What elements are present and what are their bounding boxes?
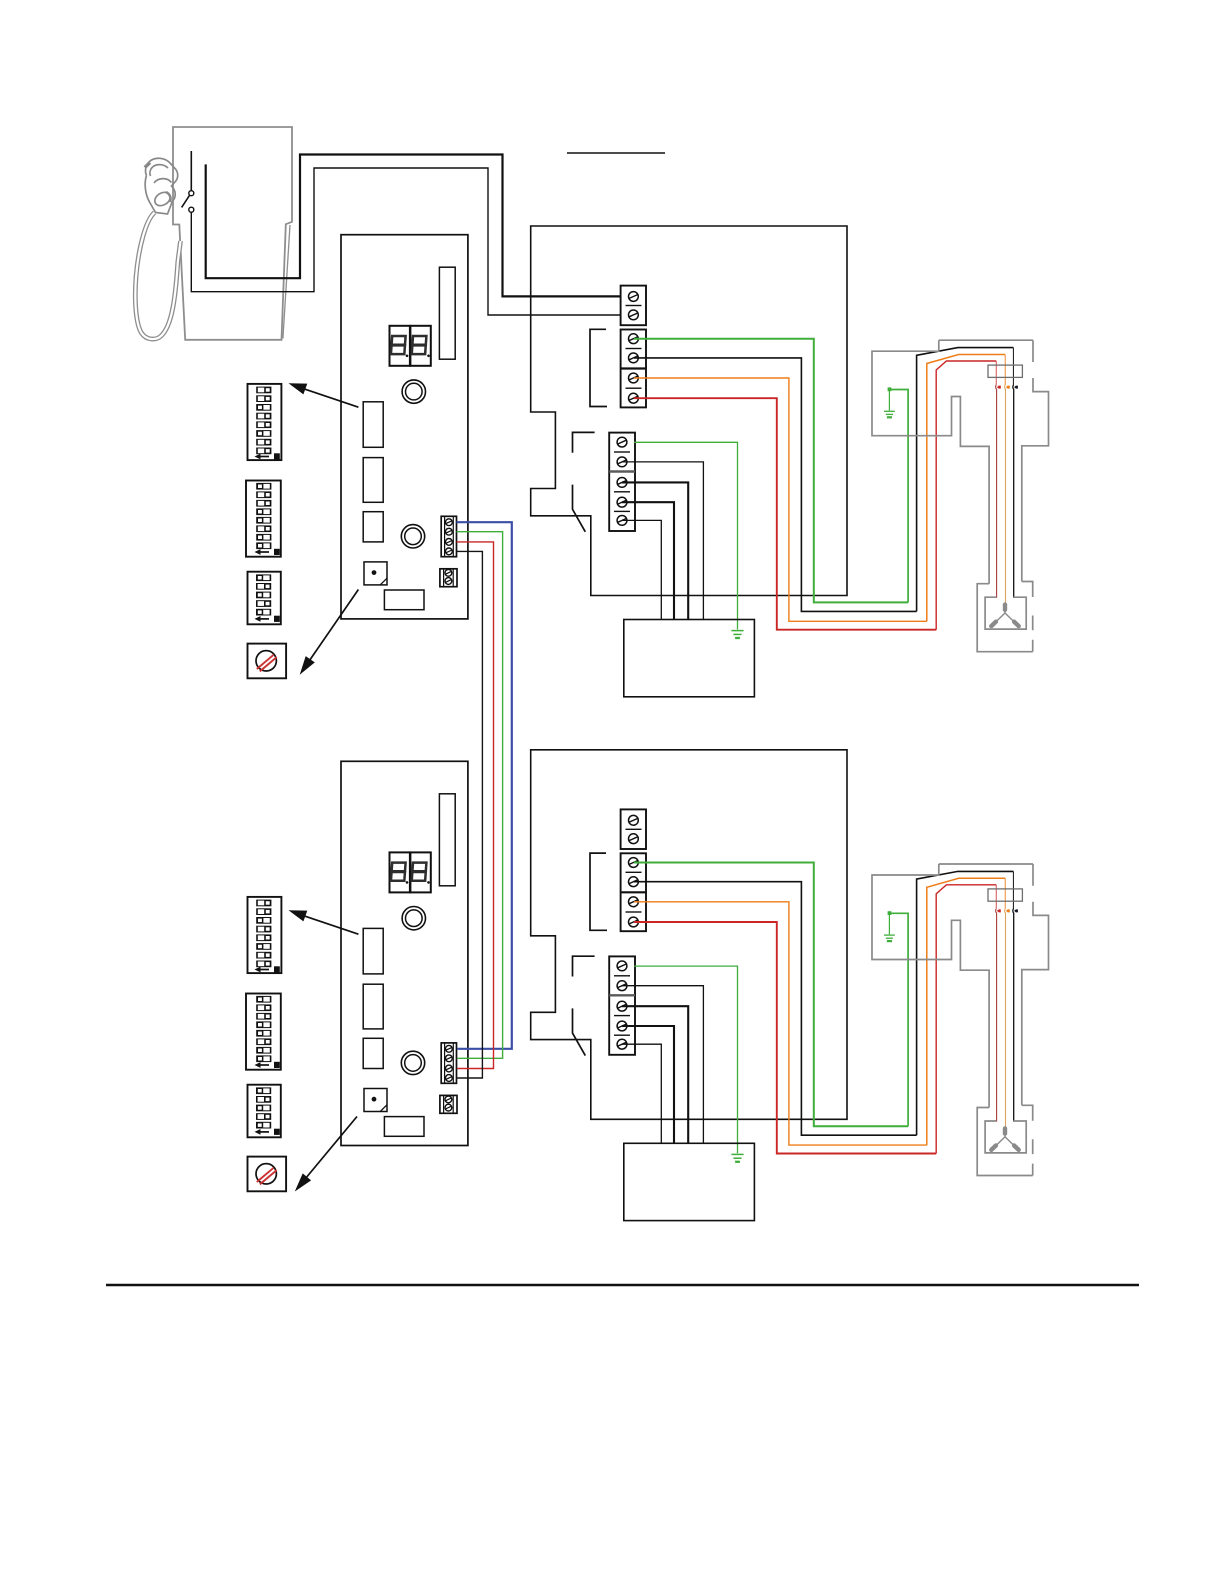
comm wire red xyxy=(457,542,494,1069)
comm wire green xyxy=(457,532,503,1059)
unit 2 left column xyxy=(246,897,286,1191)
unit 2 arrow to pot xyxy=(295,1117,357,1192)
top reference line xyxy=(567,152,665,154)
unit 1 board xyxy=(341,235,468,619)
separator rule bottom xyxy=(106,1284,1139,1287)
wire: handle switch to AC block xyxy=(191,168,630,315)
dispenser cabinet xyxy=(173,127,292,340)
unit 2 board xyxy=(341,761,468,1145)
unit 1 junction box + STP xyxy=(531,226,1049,697)
unit 2 junction box + STP xyxy=(531,750,1049,1221)
unit 1 arrows xyxy=(289,383,359,674)
wire: AC hot xyxy=(206,155,630,297)
nozzle xyxy=(145,158,178,214)
comm wire black xyxy=(457,551,483,1078)
comm wire blue xyxy=(457,522,512,1049)
hose xyxy=(135,213,180,340)
unit 1 left column xyxy=(246,384,286,678)
handle switch xyxy=(182,151,194,212)
unit 2 arrow to DIP banks xyxy=(289,910,359,934)
